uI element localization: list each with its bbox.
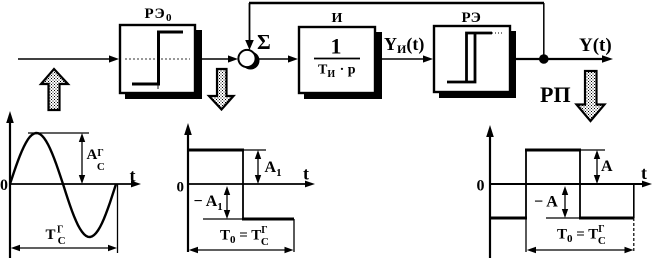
svg-text:− A: − A [534, 194, 558, 211]
svg-text:РЭ: РЭ [462, 10, 481, 26]
svg-text:t: t [130, 166, 136, 186]
svg-text:Σ: Σ [257, 30, 271, 54]
svg-text:Y(t): Y(t) [579, 35, 612, 56]
svg-text:И: И [332, 11, 343, 26]
svg-text:0: 0 [477, 178, 485, 195]
svg-text:t: t [641, 163, 647, 183]
svg-text:0: 0 [0, 177, 8, 194]
svg-text:0: 0 [177, 180, 185, 196]
svg-text:РП: РП [540, 82, 571, 107]
svg-text:1: 1 [331, 34, 342, 59]
svg-text:TИ · p: TИ · p [318, 63, 356, 81]
svg-text:t: t [303, 164, 309, 184]
svg-text:A: A [601, 158, 613, 175]
